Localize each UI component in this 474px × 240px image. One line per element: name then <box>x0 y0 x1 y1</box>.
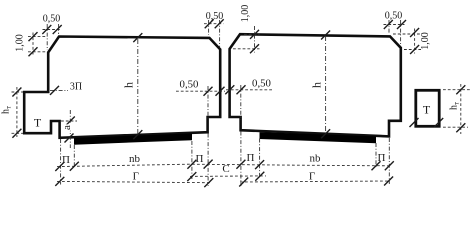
dim 0,50 top-right: dimension line <box>384 24 405 26</box>
bottom extension line at tooth x=60.6 <box>60 139 62 185</box>
svg-text:0,50: 0,50 <box>43 14 61 25</box>
bottom extension line at left slab edge x=208.1 <box>207 134 209 187</box>
dim h_t detached rect: dimension line <box>460 84 462 134</box>
dim h right slab: dimension line <box>325 36 327 134</box>
svg-text:h: h <box>310 82 324 88</box>
right slab outline <box>230 34 401 136</box>
bottom extension line at left bar start x=74.3 <box>73 145 75 168</box>
tick at detached rect bottom-left <box>410 118 419 127</box>
bottom C dimension line (between bearing bars) <box>190 175 266 178</box>
label 3P step: leader line <box>50 89 68 91</box>
svg-text:Г: Г <box>133 171 139 183</box>
joint strip T rectangle (right, detached) <box>416 90 439 126</box>
bottom extension line at right bar start x=259.6 <box>259 139 261 179</box>
bottom extension line at left bar end x=191.9 <box>191 141 193 179</box>
svg-text:a: a <box>61 125 73 130</box>
left slab outline <box>24 37 220 138</box>
dim a tooth: dimension line <box>69 110 71 148</box>
svg-text:0,50: 0,50 <box>385 11 403 22</box>
dim 0,50 gap-right: dimension line <box>226 89 274 91</box>
dim h_t left shelf: dimension line <box>16 87 18 137</box>
dim 1,00 top-left: dimension line <box>32 33 34 56</box>
tick at detached rect bottom-right <box>434 118 443 127</box>
svg-text:П: П <box>378 152 386 164</box>
dim 1,00 top-right: extension lines <box>393 33 421 35</box>
svg-text:nb: nb <box>310 153 322 165</box>
dim 1,00 right slab top-left: dimension line <box>254 26 256 53</box>
bottom extension line at right slab outer corner x=389.3 <box>388 138 390 184</box>
svg-text:Т: Т <box>423 102 431 116</box>
dim 0,50 top-right: extension lines <box>388 20 390 34</box>
dim 0,50 gap-right: extension line <box>240 85 242 120</box>
svg-text:П: П <box>62 154 70 166</box>
svg-text:0,50: 0,50 <box>252 78 271 90</box>
dim 1,00 top-left: extension lines <box>28 36 46 38</box>
svg-text:П: П <box>247 152 255 164</box>
dim a tooth: extension line <box>61 120 77 122</box>
svg-text:0,50: 0,50 <box>180 79 199 91</box>
svg-text:nb: nb <box>129 153 141 165</box>
svg-text:С: С <box>222 163 229 175</box>
bottom row1 dimension line (P nb P chain) <box>57 164 391 166</box>
dim h_t left shelf: extension lines <box>12 91 24 93</box>
svg-text:h: h <box>122 82 136 88</box>
dim h left slab: dimension line <box>137 39 139 135</box>
dim 1,00 right slab top-left: extension lines <box>244 33 260 35</box>
svg-text:1,00: 1,00 <box>15 34 26 52</box>
dim 0,50 top-left: extension lines <box>46 24 48 50</box>
right slab bottom bearing bar <box>260 132 377 143</box>
bottom row2 right G dimension line <box>240 181 390 182</box>
dim 0,50 top-middle (left slab right chamfer): extension lines <box>208 20 210 35</box>
dim h_t detached rect: extension lines <box>443 89 470 91</box>
dim 0,50 gap-left: extension line <box>207 86 209 120</box>
dim 1,00 top-right: dimension line <box>414 29 416 54</box>
dim 0,50 top-middle: dimension line <box>204 23 224 25</box>
svg-text:Г: Г <box>309 171 315 183</box>
dim 0,50 top-left: dimension line <box>43 29 62 31</box>
svg-text:1,00: 1,00 <box>420 32 431 50</box>
bottom row2 left G dimension line <box>57 181 212 182</box>
svg-text:Т: Т <box>34 116 42 130</box>
svg-text:0,50: 0,50 <box>206 11 224 22</box>
dim 0,50 gap-left: dimension line <box>176 90 225 92</box>
svg-text:П: П <box>196 153 204 165</box>
bottom extension line at right bar end x=376 <box>375 143 377 168</box>
svg-text:3П: 3П <box>70 82 82 93</box>
left slab bottom bearing bar <box>74 133 192 144</box>
svg-text:1,00: 1,00 <box>240 5 251 23</box>
bottom extension line at right slab edge x=240.9 <box>240 132 242 187</box>
